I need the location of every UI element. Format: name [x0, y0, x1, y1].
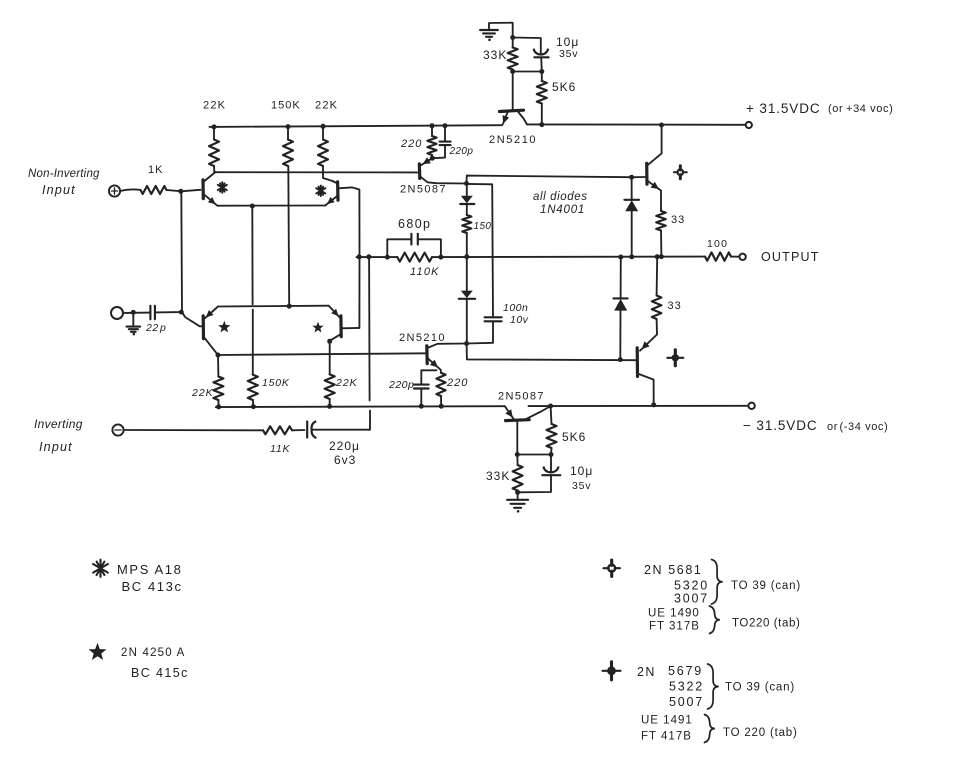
label R3 5K6: [552, 80, 576, 94]
label 5320: [674, 579, 709, 593]
svg-text:22K: 22K: [315, 100, 338, 112]
wire +rail (front-end side): [210, 125, 503, 127]
svg-text:BC 413c: BC 413c: [122, 579, 183, 594]
label R4 22K: [203, 100, 226, 112]
svg-text:10v: 10v: [510, 314, 529, 326]
label R10 22K: [335, 377, 358, 389]
svg-text:TO 39 (can): TO 39 (can): [725, 682, 795, 694]
terminal inverting input (-): [112, 424, 123, 435]
label 2N4250A: [121, 647, 186, 659]
label BC 415c: [131, 666, 189, 680]
svg-text:− 31.5VDC: − 31.5VDC: [743, 418, 818, 433]
wire -rail (supply side): [529, 405, 749, 407]
mark 4star on Q9: [667, 350, 683, 366]
mark * on Q2: [316, 186, 325, 196]
label R5 150K: [271, 100, 301, 112]
mark star on Q4: [312, 322, 323, 333]
mark legend asterisk: [93, 560, 108, 577]
ground (top filter): [480, 23, 513, 41]
terminal +31.5VDC: [746, 122, 752, 128]
svg-text:22 p: 22 p: [145, 322, 166, 334]
wire node A to 10u cap: [513, 38, 541, 54]
mark legend 4star filled: [603, 662, 621, 680]
label R8 22K: [191, 387, 214, 399]
transistor Q3 (PNP star): [182, 307, 218, 355]
svg-text:TO220 (tab): TO220 (tab): [732, 618, 800, 630]
node 33-up on output line: [659, 254, 664, 259]
label R14 150: [474, 221, 492, 232]
wire output line (mid): [432, 256, 705, 259]
label C5 10v: [510, 314, 529, 326]
node 22p/base column: [179, 310, 184, 315]
svg-text:Input: Input: [39, 440, 73, 454]
wire inverting input to 11K: [124, 429, 263, 431]
svg-text:10μ: 10μ: [556, 35, 579, 49]
label TO220 (tab): [732, 618, 800, 630]
label UE 1491: [641, 715, 693, 727]
wire upper emitter line: [217, 205, 325, 207]
transistor Q5 2N5210 (top filter): [500, 72, 528, 125]
node D-string bottom: [464, 341, 469, 346]
label MPS A18: [117, 562, 182, 577]
svg-text:+ 31.5VDC: + 31.5VDC: [746, 101, 821, 116]
node -rail/output collector: [651, 402, 656, 407]
label R7 1K: [148, 164, 163, 176]
node Q6 emitter junction: [430, 156, 435, 161]
label -31.5VDC: [743, 418, 818, 433]
label FT 417B: [641, 731, 692, 743]
svg-text:220: 220: [400, 138, 422, 150]
resistor R5 150K (upper middle): [283, 127, 293, 166]
svg-text:2N5087: 2N5087: [400, 184, 447, 196]
node Q8 base: [629, 175, 634, 180]
capacitor C8 22p: [150, 306, 155, 320]
node 22K-b on -rail: [327, 404, 332, 409]
label 5007: [669, 695, 704, 709]
svg-text:FT 417B: FT 417B: [641, 731, 692, 743]
resistor R7 1K: [141, 186, 167, 194]
resistor R15 220 (lower): [436, 373, 445, 406]
node 680p right: [438, 255, 443, 260]
node 220p on -rail: [419, 404, 424, 409]
label C2 6v3: [334, 453, 356, 467]
capacitor C7 10u 35v (bottom): [518, 455, 561, 493]
node feedback/inverting: [366, 254, 371, 259]
node C (+in base node): [178, 189, 183, 194]
wire to upper output base: [467, 176, 632, 184]
svg-text:33: 33: [668, 300, 682, 312]
node 220 on -rail: [439, 404, 444, 409]
node tail (upper emitters): [250, 204, 255, 209]
transistor Q9 output PNP (4star): [637, 341, 654, 405]
diode D2 1N4001 (down): [459, 257, 475, 344]
svg-text:22K: 22K: [335, 377, 358, 389]
label Non-Inverting: [28, 168, 100, 180]
label C3 680p: [398, 217, 431, 231]
resistor R17 33 (lower): [652, 257, 662, 319]
svg-text:150K: 150K: [262, 377, 290, 389]
svg-text:5K6: 5K6: [552, 80, 576, 94]
diode D4 1N4001 (up): [613, 257, 627, 360]
resistor R20 33K (bottom): [513, 455, 523, 493]
node D-string top: [464, 181, 469, 186]
resistor R6 22K (upper right): [318, 126, 333, 181]
transistor Q1 (NPN *): [203, 172, 217, 206]
mark legend diamond: [604, 560, 620, 576]
wire 11K to 220u: [292, 429, 305, 431]
resistor R11 11K: [263, 426, 292, 434]
label R13 220: [400, 138, 422, 150]
label C5 100n: [503, 302, 528, 314]
svg-text:BC 415c: BC 415c: [131, 666, 189, 680]
svg-text:220p: 220p: [449, 146, 474, 157]
resistor R18 100: [705, 252, 738, 260]
capacitor C6 220p (lower): [414, 370, 437, 406]
label C4 220p: [449, 146, 474, 157]
svg-text:35v: 35v: [572, 480, 591, 492]
label Q10 2N5087: [498, 391, 545, 403]
node B (33K bottom): [510, 69, 515, 74]
label C2 220u: [329, 439, 360, 453]
mark star on Q3: [218, 321, 230, 333]
label 5679: [668, 664, 703, 678]
label TO 220 (tab): [723, 727, 798, 739]
svg-text:Inverting: Inverting: [34, 417, 83, 431]
wire Q2 base to feedback node: [338, 187, 360, 256]
svg-text:220μ: 220μ: [329, 439, 360, 453]
terminal -31.5VDC: [748, 403, 754, 409]
label TO 39 (can) 2: [725, 682, 795, 694]
label Q5 2N5210: [489, 134, 537, 146]
label C1 10u: [556, 35, 579, 49]
svg-text:220: 220: [446, 377, 468, 389]
terminal non-inverting input (+): [109, 185, 120, 196]
label 2N 5681: [644, 563, 702, 577]
wire output line (left): [357, 256, 398, 258]
node Q3 collector: [216, 353, 221, 358]
node D-string on output line: [464, 254, 469, 259]
wire VAS base line (Q3 coll to 2N5210): [218, 353, 427, 355]
node 22K-a on +rail: [212, 124, 217, 129]
node D4 on output line: [618, 255, 623, 260]
mark legend star5: [89, 643, 107, 660]
node bias junction right: [549, 452, 554, 457]
resistor R2 33K (top): [508, 38, 518, 72]
label R18 100: [707, 238, 728, 250]
transistor Q8 output NPN (diamond): [632, 125, 662, 211]
node Q2/Q4 base on line: [357, 254, 362, 259]
svg-text:5K6: 5K6: [562, 430, 586, 444]
svg-text:22K: 22K: [191, 387, 214, 399]
label 5322: [669, 680, 704, 694]
node Q4 collector: [327, 339, 332, 344]
resistor R19 5K6 (bottom): [547, 406, 557, 454]
brace TO220 bottom: [705, 715, 715, 743]
wire upper tail down (to lower 150K): [251, 206, 254, 375]
label +31.5VDC: [746, 101, 821, 116]
node input ground: [131, 310, 136, 315]
node -rail 5K6: [548, 404, 553, 409]
node 150K on -rail: [251, 404, 256, 409]
brace TO220 top: [710, 606, 720, 634]
wire 220u to feedback node: [313, 257, 371, 430]
svg-text:150: 150: [474, 221, 492, 232]
label or (-34 voc): [827, 421, 888, 433]
svg-text:1K: 1K: [148, 164, 163, 176]
svg-text:5320: 5320: [674, 579, 709, 593]
wire node B to 5K6 top: [513, 71, 542, 73]
wire to lower output base: [467, 344, 637, 361]
label R12 110K: [410, 266, 440, 278]
wire 150K tail to lower emitters: [287, 166, 290, 306]
label R2 33K: [483, 48, 507, 62]
capacitor C2 220u 6v3: [307, 421, 316, 438]
wire Q2 base vertical lower half (to Q4): [358, 257, 360, 328]
svg-text:OUTPUT: OUTPUT: [761, 250, 820, 264]
svg-text:2N5087: 2N5087: [498, 391, 545, 403]
svg-text:680p: 680p: [398, 217, 431, 231]
svg-text:22K: 22K: [203, 100, 226, 112]
node A (33K/10u top): [510, 35, 515, 40]
node 220p on +rail: [443, 123, 448, 128]
svg-text:11K: 11K: [270, 443, 290, 455]
label R16 33: [671, 214, 685, 226]
node 33-low on output line: [655, 254, 660, 259]
transistor Q6 2N5087 (upper VAS): [419, 157, 466, 183]
svg-text:2N5210: 2N5210: [399, 332, 446, 344]
label C7 35v: [572, 480, 591, 492]
ground (input): [127, 312, 141, 335]
svg-text:5007: 5007: [669, 695, 704, 709]
label Q7 2N5210: [399, 332, 446, 344]
label (or +34 VDC): [828, 103, 893, 115]
junction 5K6 on +rail: [539, 122, 544, 127]
label Inverting: [34, 417, 83, 431]
label 2N (2): [637, 665, 656, 679]
label 1N4001: [540, 204, 585, 216]
svg-text:10μ: 10μ: [570, 464, 593, 478]
label R11 11K: [270, 443, 290, 455]
svg-text:6v3: 6v3: [334, 453, 356, 467]
wire ref to 22p: [123, 312, 150, 314]
transistor Q2 (NPN *): [325, 181, 338, 206]
node 680p left: [385, 255, 390, 260]
node lower emitters/150K: [287, 304, 292, 309]
svg-text:or (-34 voc): or (-34 voc): [827, 421, 888, 433]
wire node C down to Q3 base: [180, 191, 183, 312]
svg-text:110K: 110K: [410, 266, 440, 278]
svg-text:3007: 3007: [674, 592, 709, 606]
node 22K-b on +rail: [321, 124, 326, 129]
capacitor C3 680p (loop): [387, 234, 441, 257]
label TO 39 (can): [731, 580, 801, 592]
label Input (inv): [39, 440, 73, 454]
wire input to 1K: [120, 189, 140, 191]
resistor R16 33 (upper): [656, 211, 666, 257]
label R15 220: [446, 377, 468, 389]
label C1 35v: [559, 48, 578, 60]
svg-text:1N4001: 1N4001: [540, 204, 585, 216]
transistor Q4 (PNP star): [329, 306, 360, 349]
node 22K-a on -rail: [216, 404, 221, 409]
wire 22p to base column: [155, 311, 181, 313]
label C7 10u: [570, 464, 593, 478]
ground (bottom filter): [507, 492, 528, 512]
terminal OUTPUT: [739, 254, 745, 260]
svg-text:2N 4250 A: 2N 4250 A: [121, 647, 186, 659]
wire +rail (supply side): [527, 123, 745, 125]
svg-text:Input: Input: [42, 183, 76, 197]
wire -rail (front-end side): [216, 405, 505, 408]
resistor R13 220 (upper): [427, 126, 436, 158]
node Q9 base: [618, 357, 623, 362]
svg-text:TO 220 (tab): TO 220 (tab): [723, 727, 798, 739]
resistor R10 22K (lower right): [325, 349, 335, 406]
resistor R4 22K (upper left): [209, 127, 219, 172]
capacitor C4 220p (upper): [432, 126, 450, 159]
mark diamond on Q8: [674, 166, 687, 179]
resistor R3 5K6 (top): [537, 72, 547, 125]
capacitor C1 10u 35v (top): [534, 49, 549, 72]
label R20 33K: [486, 469, 510, 483]
wire node C to Q1 base: [181, 190, 201, 192]
wire bias junction: [517, 454, 551, 456]
svg-text:TO 39 (can): TO 39 (can): [731, 580, 801, 592]
svg-text:2N5210: 2N5210: [489, 134, 537, 146]
brace TO39 top: [712, 560, 723, 605]
node bias junction left: [515, 452, 520, 457]
transistor Q10 2N5087 (bottom filter): [505, 406, 549, 454]
label 3007: [674, 592, 709, 606]
brace TO39 bottom: [708, 664, 719, 709]
svg-text:33K: 33K: [486, 469, 510, 483]
diode D1 1N4001 (down): [460, 184, 474, 216]
label Input (non-inv): [42, 183, 76, 197]
svg-text:FT 317B: FT 317B: [649, 621, 700, 633]
junction 5K6/cap: [539, 69, 544, 74]
label R17 33: [668, 300, 682, 312]
transistor Q7 2N5210 (lower VAS): [427, 344, 466, 373]
svg-text:UE 1490: UE 1490: [648, 608, 700, 620]
label BC 413c: [122, 579, 183, 594]
svg-text:100: 100: [707, 238, 728, 250]
svg-text:150K: 150K: [271, 100, 301, 112]
label C8 22p: [145, 322, 166, 334]
node +rail/output collector: [659, 123, 664, 128]
svg-text:220p: 220p: [388, 379, 414, 391]
svg-text:(or +34 voc): (or +34 voc): [828, 103, 893, 115]
node 33K/cap bottom: [515, 490, 520, 495]
svg-text:100n: 100n: [503, 302, 528, 314]
svg-text:UE 1491: UE 1491: [641, 715, 693, 727]
label R19 5K6: [562, 430, 586, 444]
svg-text:35v: 35v: [559, 48, 578, 60]
svg-text:2N 5681: 2N 5681: [644, 563, 702, 577]
svg-text:5679: 5679: [668, 664, 703, 678]
resistor R9 150K (lower middle): [248, 375, 258, 407]
node 150K-a on +rail: [286, 124, 291, 129]
label UE 1490: [648, 608, 700, 620]
label R9 150K: [262, 377, 290, 389]
terminal inverting ref: [111, 307, 123, 319]
svg-text:33: 33: [671, 214, 685, 226]
node 220 on +rail: [430, 123, 435, 128]
resistor R12 110K: [397, 253, 432, 262]
resistor R14 150: [462, 215, 471, 257]
label Q6 2N5087: [400, 184, 447, 196]
wire 33-low to Q9 emitter: [640, 319, 657, 351]
wire Q1 collector line (to 2N5087 base): [214, 171, 417, 173]
resistor R8 22K (lower left): [213, 355, 223, 407]
capacitor C5 100n 10v: [467, 317, 502, 343]
label R6 22K: [315, 100, 338, 112]
label FT 317B: [649, 621, 700, 633]
svg-text:all diodes: all diodes: [533, 191, 588, 203]
svg-text:Non-Inverting: Non-Inverting: [28, 168, 100, 180]
svg-text:33K: 33K: [483, 48, 507, 62]
label all diodes: [533, 191, 588, 203]
mark * on Q1: [218, 182, 227, 192]
svg-text:MPS A18: MPS A18: [117, 562, 182, 577]
label C6 220p: [388, 379, 414, 391]
node D3 on output line: [629, 254, 634, 259]
wire 100n branch top: [467, 184, 494, 317]
diode D3 1N4001 (up): [624, 177, 639, 257]
wire 1K to node C: [167, 190, 181, 191]
label OUTPUT: [761, 250, 820, 264]
svg-text:5322: 5322: [669, 680, 704, 694]
wire lower emitter line: [218, 305, 329, 308]
svg-text:2N: 2N: [637, 665, 656, 679]
